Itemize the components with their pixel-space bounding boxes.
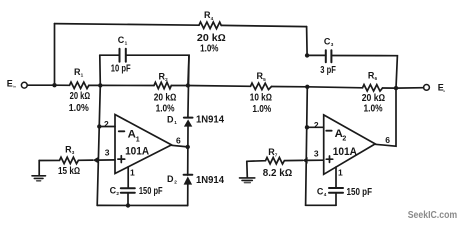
wire input to node A bbox=[27, 84, 54, 86]
wire A1 pin1 lead bbox=[127, 167, 129, 188]
wire node B up to C1 rail bbox=[99, 55, 102, 85]
wire main: node A to R1 bbox=[55, 84, 70, 86]
svg-text:3: 3 bbox=[105, 147, 110, 157]
svg-text:C: C bbox=[324, 36, 331, 46]
svg-text:4: 4 bbox=[211, 16, 214, 21]
wire node B down (summing line A1) bbox=[97, 85, 100, 205]
svg-text:R: R bbox=[65, 144, 72, 154]
wire node B to R2 bbox=[100, 84, 154, 86]
svg-text:1.0%: 1.0% bbox=[200, 43, 219, 54]
svg-text:20 kΩ: 20 kΩ bbox=[70, 91, 91, 102]
diode D1 bbox=[184, 118, 193, 127]
wire node E to output terminal bbox=[396, 87, 424, 89]
svg-text:3: 3 bbox=[72, 150, 75, 155]
wire bottom rail left (to C2 and D2) bbox=[97, 204, 188, 206]
svg-text:1: 1 bbox=[338, 168, 343, 178]
svg-text:1.0%: 1.0% bbox=[156, 103, 175, 114]
svg-text:A: A bbox=[335, 128, 343, 140]
wire node D down (summing line A2) bbox=[306, 87, 308, 206]
resistor R6 bbox=[363, 85, 383, 92]
svg-text:E: E bbox=[7, 79, 13, 89]
op-amp U1 A1 triangle bbox=[115, 115, 172, 174]
svg-text:150 pF: 150 pF bbox=[347, 187, 373, 198]
C2 bottom junction dot bbox=[126, 203, 130, 207]
wire top rail right segment bbox=[221, 25, 306, 26]
wire node A up to top rail bbox=[54, 24, 56, 86]
capacitor C1 bbox=[120, 49, 126, 62]
svg-text:R: R bbox=[159, 72, 166, 82]
wire R1 to node B bbox=[89, 84, 101, 86]
ground left wire bbox=[38, 161, 40, 176]
svg-text:SeekIC.com: SeekIC.com bbox=[408, 210, 458, 221]
svg-text:6: 6 bbox=[385, 135, 390, 145]
wire bottom rail right (to C4) bbox=[306, 204, 336, 206]
wire R6 to node E bbox=[383, 87, 397, 89]
op-amp A2 minus sign bbox=[326, 130, 331, 132]
op-amp A1 plus sign bbox=[118, 156, 125, 163]
node C junction dot bbox=[186, 83, 190, 87]
wire top rail down to C3 node bbox=[306, 27, 309, 56]
wire node C to R5 bbox=[188, 85, 251, 88]
wire A1 output bbox=[172, 145, 188, 147]
output terminal E_o bbox=[424, 85, 430, 91]
node A junction dot bbox=[52, 83, 56, 87]
wire A2 pin 3 stub bbox=[306, 159, 324, 161]
svg-text:7: 7 bbox=[275, 153, 278, 158]
svg-text:2: 2 bbox=[165, 77, 168, 82]
svg-text:20 kΩ: 20 kΩ bbox=[362, 93, 386, 104]
capacitor C3 bbox=[326, 50, 332, 62]
svg-text:R: R bbox=[257, 71, 264, 81]
svg-text:in: in bbox=[13, 84, 16, 88]
svg-text:R: R bbox=[204, 10, 211, 20]
svg-text:1: 1 bbox=[125, 41, 128, 46]
svg-text:E: E bbox=[438, 82, 444, 92]
wire C2 bottom lead bbox=[127, 193, 129, 206]
node E junction dot bbox=[394, 86, 398, 90]
svg-text:C: C bbox=[118, 35, 125, 45]
svg-text:8.2 kΩ: 8.2 kΩ bbox=[263, 168, 293, 179]
capacitor C4 bbox=[329, 188, 343, 193]
wire C3 rail right and down to node E bbox=[331, 56, 397, 89]
svg-text:20 kΩ: 20 kΩ bbox=[197, 33, 226, 44]
wire diode chain vertical bbox=[188, 55, 189, 205]
ground right wire bbox=[246, 161, 249, 177]
svg-text:5: 5 bbox=[263, 77, 266, 82]
input terminal E_in bbox=[21, 82, 27, 88]
svg-text:2: 2 bbox=[174, 179, 177, 184]
svg-text:101A: 101A bbox=[125, 146, 149, 158]
svg-text:6: 6 bbox=[375, 76, 378, 81]
resistor R7 bbox=[247, 158, 303, 165]
resistor R4 bbox=[199, 22, 221, 29]
wire C4 bottom lead bbox=[335, 193, 337, 206]
svg-text:2: 2 bbox=[116, 191, 119, 196]
svg-text:R: R bbox=[368, 70, 375, 80]
wire A2 pin 2 stub bbox=[307, 126, 324, 128]
op-amp U2 A2 triangle bbox=[324, 115, 376, 174]
svg-text:1N914: 1N914 bbox=[196, 114, 225, 125]
svg-text:20 kΩ: 20 kΩ bbox=[154, 92, 177, 103]
svg-text:3: 3 bbox=[331, 42, 334, 47]
svg-text:6: 6 bbox=[176, 136, 181, 146]
svg-text:1.0%: 1.0% bbox=[364, 103, 383, 114]
wire C3 rail left bbox=[307, 54, 326, 56]
node C3-left junction dot bbox=[305, 53, 309, 57]
resistor R3 bbox=[39, 157, 93, 164]
ground left symbol bbox=[32, 176, 46, 181]
svg-text:1: 1 bbox=[130, 168, 135, 178]
svg-text:D: D bbox=[167, 114, 174, 124]
svg-text:1: 1 bbox=[136, 136, 140, 143]
junction wedge A1 pin3 bbox=[93, 157, 99, 164]
wire R2 to node C bbox=[171, 85, 188, 87]
svg-text:A: A bbox=[128, 129, 136, 141]
svg-text:101A: 101A bbox=[333, 146, 357, 158]
svg-text:R: R bbox=[268, 147, 275, 157]
node D junction dot bbox=[305, 85, 309, 89]
svg-text:2: 2 bbox=[104, 119, 109, 129]
svg-text:3: 3 bbox=[314, 148, 319, 158]
wire A2 output feedback bbox=[375, 88, 396, 146]
wire node D to R6 bbox=[307, 87, 362, 88]
ground right symbol bbox=[240, 178, 255, 183]
svg-text:1: 1 bbox=[81, 73, 84, 78]
node A1 pin2 junction dot bbox=[97, 124, 101, 128]
svg-text:C: C bbox=[317, 187, 324, 197]
wire top rail left segment bbox=[55, 24, 200, 26]
svg-text:1: 1 bbox=[174, 120, 177, 125]
resistor R2 bbox=[154, 82, 171, 89]
svg-text:o: o bbox=[443, 89, 445, 93]
svg-text:D: D bbox=[167, 174, 174, 184]
wire A1 pin 3 stub bbox=[98, 159, 115, 161]
svg-text:1.0%: 1.0% bbox=[252, 104, 271, 115]
svg-text:15 kΩ: 15 kΩ bbox=[58, 166, 80, 177]
wire A2 pin1 lead bbox=[335, 167, 337, 187]
svg-text:150 pF: 150 pF bbox=[139, 186, 163, 197]
A1 output junction dot bbox=[186, 145, 190, 149]
svg-text:3 pF: 3 pF bbox=[320, 65, 336, 76]
op-amp A2 plus sign bbox=[326, 156, 332, 162]
resistor R5 bbox=[251, 83, 272, 90]
svg-text:10 pF: 10 pF bbox=[111, 64, 131, 75]
wire C1 rail left bbox=[100, 54, 120, 56]
diode D2 bbox=[184, 175, 193, 185]
svg-text:1.0%: 1.0% bbox=[69, 103, 89, 114]
wire C1 rail right bbox=[126, 55, 189, 85]
svg-text:2: 2 bbox=[314, 120, 319, 130]
svg-text:C: C bbox=[110, 185, 117, 195]
svg-text:2: 2 bbox=[342, 135, 346, 142]
svg-text:R: R bbox=[74, 67, 81, 77]
junction wedge A2 pin3 bbox=[303, 157, 308, 164]
op-amp A1 minus sign bbox=[119, 130, 125, 132]
svg-text:10 kΩ: 10 kΩ bbox=[250, 92, 272, 103]
wire A1 pin 2 stub bbox=[99, 126, 115, 128]
capacitor C2 bbox=[121, 188, 135, 193]
node A2 pin2 junction dot bbox=[305, 125, 309, 129]
svg-text:1N914: 1N914 bbox=[196, 175, 225, 186]
svg-text:4: 4 bbox=[324, 192, 327, 197]
resistor R1 bbox=[70, 82, 89, 89]
wire R5 to node D bbox=[272, 86, 308, 88]
node B junction dot bbox=[98, 83, 102, 87]
